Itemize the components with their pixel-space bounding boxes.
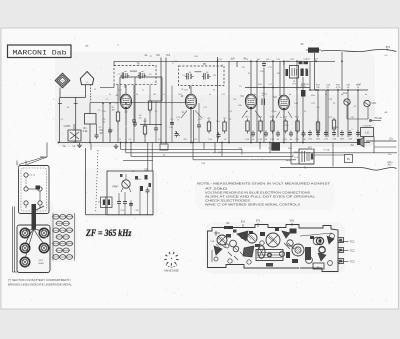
svg-text:1M: 1M	[111, 109, 114, 111]
svg-text:M: M	[62, 81, 64, 83]
svg-text:R15a: R15a	[284, 125, 290, 127]
svg-text:TC: TC	[239, 86, 242, 88]
svg-text:8T2: 8T2	[256, 220, 261, 223]
svg-text:2M: 2M	[183, 139, 186, 141]
svg-text:USED: USED	[38, 263, 44, 265]
svg-text:1k: 1k	[132, 171, 134, 173]
svg-text:TO AE: TO AE	[374, 117, 382, 120]
svg-text:TC1: TC1	[350, 240, 356, 244]
svg-text:OC1: OC1	[372, 103, 377, 105]
svg-text:1c: 1c	[142, 90, 144, 92]
svg-text:CHECK ELECTRODES: CHECK ELECTRODES	[205, 199, 251, 203]
svg-text:1M: 1M	[303, 139, 306, 141]
svg-text:VOLTAGE READINGS IN BLUE ELECT: VOLTAGE READINGS IN BLUE ELECTRON CONNEC…	[205, 191, 310, 195]
svg-text:3Ω: 3Ω	[351, 145, 354, 147]
svg-text:WAVE 'C' OF METERED SERVICE AE: WAVE 'C' OF METERED SERVICE AERIAL CONTR…	[205, 203, 300, 207]
svg-text:CAPO: CAPO	[64, 125, 71, 128]
svg-text:3,3k: 3,3k	[83, 129, 89, 133]
svg-text:TA: TA	[136, 62, 139, 66]
svg-text:PU+: PU+	[388, 154, 393, 156]
svg-text:W11: W11	[290, 220, 295, 223]
svg-text:C18a: C18a	[272, 111, 278, 113]
svg-text:BROKEN LINES INDICATE UNDERSID: BROKEN LINES INDICATE UNDERSIDE METAL	[8, 284, 73, 287]
svg-text:FU 1A: FU 1A	[324, 149, 331, 152]
svg-text:MARCONI Dab: MARCONI Dab	[13, 49, 67, 56]
svg-text:1M: 1M	[257, 59, 260, 61]
svg-text:AC1: AC1	[343, 92, 348, 95]
svg-text:TA1: TA1	[166, 54, 171, 57]
svg-text:VALVE BASE: VALVE BASE	[164, 270, 179, 273]
svg-text:P4M7: P4M7	[112, 187, 119, 189]
svg-text:C1A: C1A	[210, 240, 215, 243]
svg-text:4c: 4c	[280, 117, 282, 119]
svg-text:ZF = 365 kHz: ZF = 365 kHz	[85, 229, 132, 239]
svg-text:BY2: BY2	[241, 222, 246, 224]
svg-text:V3: V3	[240, 94, 244, 98]
svg-text:LS: LS	[365, 131, 369, 135]
svg-text:LOUDSP: LOUDSP	[363, 126, 373, 128]
svg-text:LA2A: LA2A	[285, 159, 291, 162]
svg-text:NOT: NOT	[39, 260, 44, 262]
svg-text:TC3: TC3	[350, 260, 356, 264]
svg-text:PU: PU	[347, 158, 351, 161]
svg-text:1M: 1M	[277, 73, 280, 75]
svg-text:LS+: LS+	[389, 139, 394, 141]
svg-text:ALT-: ALT-	[388, 164, 393, 167]
svg-text:NOTE:- MEASUREMENTS GIVEN IN V: NOTE:- MEASUREMENTS GIVEN IN VOLT MEASUR…	[197, 182, 331, 186]
svg-text:TB: TB	[203, 62, 207, 66]
svg-text:ALIGN AT ONCE AND FULL DOT EYE: ALIGN AT ONCE AND FULL DOT EYES OF ORIGI…	[205, 195, 316, 199]
svg-text:(*) SECTION OF BATTERY COMPART: (*) SECTION OF BATTERY COMPARTMENT /	[8, 279, 71, 282]
svg-text:MAINS: MAINS	[332, 126, 339, 129]
svg-text:V4: V4	[273, 95, 277, 99]
svg-text:TC2: TC2	[350, 249, 356, 253]
svg-text:2700: 2700	[300, 87, 306, 89]
svg-text:AT 20kΩ: AT 20kΩ	[205, 187, 227, 191]
